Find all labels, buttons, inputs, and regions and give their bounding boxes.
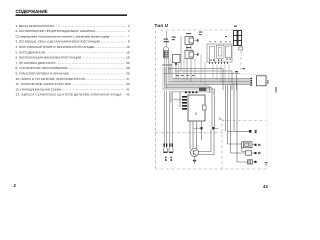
switch box row3 <box>246 151 252 155</box>
inverter top pins <box>185 88 206 94</box>
svg-text:41: 41 <box>126 87 130 91</box>
dashed control panel box right <box>266 74 268 169</box>
svg-text:13. АДРЕСА СЕРВИСНЫХ ЦЕНТРОВ Д: 13. АДРЕСА СЕРВИСНЫХ ЦЕНТРОВ ДИЛЕРОВ КОМ… <box>16 93 122 97</box>
wire label above coil <box>164 37 176 43</box>
wire end connector housings <box>163 148 173 152</box>
ground below transistor <box>193 160 197 164</box>
svg-text:16: 16 <box>126 50 130 54</box>
bundle left drops down <box>164 91 172 149</box>
svg-text:37: 37 <box>126 77 130 81</box>
small box below connector <box>239 47 243 50</box>
svg-text:10: 10 <box>126 45 130 49</box>
wires below inverter <box>190 121 197 150</box>
svg-text:11. ТЕХНИЧЕСКИЕ ХАРАКТЕРИСТИКИ: 11. ТЕХНИЧЕСКИЕ ХАРАКТЕРИСТИКИ <box>16 82 71 86</box>
wire bundle horizontal <box>163 69 240 130</box>
svg-text:7. ОСТАНОВКА ДВИГАТЕЛЯ: 7. ОСТАНОВКА ДВИГАТЕЛЯ <box>16 61 56 65</box>
spark plug circle <box>191 149 199 157</box>
control unit outer box <box>207 44 232 62</box>
svg-text:5. ПУСК ДВИГАТЕЛЯ: 5. ПУСК ДВИГАТЕЛЯ <box>16 50 46 54</box>
control unit inner pin marks <box>211 59 231 61</box>
dashed inner separator vertical <box>221 119 223 170</box>
wire right of coil <box>180 37 182 71</box>
svg-text:39: 39 <box>126 82 130 86</box>
left page: table of contents <box>16 9 128 16</box>
engine stop switch box <box>173 55 181 63</box>
svg-text:28: 28 <box>126 66 130 70</box>
connector pins to control panel <box>251 78 253 86</box>
control unit top pin labels <box>210 41 232 42</box>
svg-text:СОДЕРЖАНИЕ: СОДЕРЖАНИЕ <box>16 9 48 14</box>
dashed enclosure bottom <box>156 168 268 170</box>
inverter unit big box <box>188 95 205 121</box>
svg-text:4: 4 <box>128 29 130 33</box>
control panel row 1 wire <box>228 130 250 132</box>
svg-text:8: 8 <box>128 40 130 44</box>
svg-text:СЕ-маркировка и расположение н: СЕ-маркировка и расположение наклеек с у… <box>16 34 110 38</box>
row1 terminal <box>249 130 257 133</box>
wires below relay 2 <box>187 59 191 83</box>
wire under switch box <box>175 63 177 80</box>
loop wires right of spark plug <box>198 121 214 155</box>
control unit bottom pins <box>209 62 228 64</box>
wires between relays <box>187 45 191 51</box>
svg-text:5: 5 <box>219 117 221 121</box>
wires below coil block <box>165 58 169 88</box>
wire labels above bundle <box>176 75 194 76</box>
wires bundle to panel connector <box>240 79 251 85</box>
junction row wires <box>194 128 219 130</box>
wire from top into coil <box>166 31 168 46</box>
svg-text:2: 2 <box>14 183 17 188</box>
svg-text:8. ТЕХНИЧЕСКОЕ ОБСЛУЖИВАНИЕ: 8. ТЕХНИЧЕСКОЕ ОБСЛУЖИВАНИЕ <box>16 66 68 70</box>
svg-text:2. РАСПОЛОЖЕНИЕ ПРЕДУПРЕЖДАЮЩИ: 2. РАСПОЛОЖЕНИЕ ПРЕДУПРЕЖДАЮЩИХ ТАБЛИЧЕК <box>16 29 96 33</box>
dashed control panel box top <box>241 73 267 75</box>
svg-text:18: 18 <box>126 56 130 60</box>
junction blocks <box>201 127 215 129</box>
inverter left pins <box>182 96 187 110</box>
wire label right of bundle <box>235 71 238 72</box>
svg-text:10. ПОИСК И УСТРАНЕНИЕ НЕИСПРА: 10. ПОИСК И УСТРАНЕНИЕ НЕИСПРАВНОСТЕЙ <box>16 77 85 81</box>
svg-text:3. ОСНОВНЫЕ УЗЛЫ И ДЕТАЛИ МИНИ: 3. ОСНОВНЫЕ УЗЛЫ И ДЕТАЛИ МИНИЭЛЕКТРОСТА… <box>16 40 100 44</box>
svg-text:6. ЭКСПЛУАТАЦИЯ МИНИЭЛЕКТРОСТА: 6. ЭКСПЛУАТАЦИЯ МИНИЭЛЕКТРОСТАНЦИИ <box>16 56 81 60</box>
panel connector box <box>257 76 267 86</box>
control unit inner cells <box>210 45 232 62</box>
ignition coil connector block <box>163 47 168 58</box>
svg-text:7: 7 <box>128 34 130 38</box>
dashed enclosure main box top <box>161 29 241 31</box>
ground marks right border <box>265 162 268 166</box>
pilot lamp box row2 <box>242 142 253 148</box>
labels near relays <box>186 32 203 49</box>
dashed inner separator left horizontal <box>156 132 223 134</box>
svg-text:12. ПРИНЦИПИАЛЬНАЯ СХЕМА: 12. ПРИНЦИПИАЛЬНАЯ СХЕМА <box>16 87 62 91</box>
relay 2 <box>185 51 198 59</box>
svg-text:26: 26 <box>126 61 130 65</box>
pin tick under switch box <box>175 63 177 65</box>
dashed inner separator right horizontal <box>222 120 266 122</box>
junction marks above risers <box>163 64 172 66</box>
svg-text:43: 43 <box>263 184 268 189</box>
transistor bar and leads <box>193 150 196 155</box>
svg-text:3: 3 <box>128 24 130 28</box>
panel label marks <box>267 80 276 93</box>
relay 1 <box>185 37 198 45</box>
svg-text:4. КОНТРОЛЬНЫЙ ОСМОТР МИНИЭЛЕК: 4. КОНТРОЛЬНЫЙ ОСМОТР МИНИЭЛЕКТРОСТАНЦИИ <box>16 45 95 49</box>
inverter right small box <box>203 105 207 110</box>
label near top right border <box>225 26 245 70</box>
toc rule <box>16 14 128 16</box>
grey housing outline above inverter <box>171 92 215 103</box>
dark wire sleeves <box>164 143 173 146</box>
svg-text:Тип U: Тип U <box>155 23 169 28</box>
wire colour labels lower left <box>165 157 172 161</box>
socket row4 <box>248 160 253 164</box>
dashed enclosure main box right upper <box>240 30 242 74</box>
svg-text:1. МЕРЫ БЕЗОПАСНОСТИ: 1. МЕРЫ БЕЗОПАСНОСТИ <box>16 24 54 28</box>
svg-text:45: 45 <box>126 93 130 97</box>
bundle left nested risers <box>163 67 172 89</box>
bundle right vertical drops <box>223 69 237 163</box>
vertical taps from components to bundle <box>170 55 229 85</box>
dashed enclosure main box left <box>155 31 157 169</box>
main connector block top right <box>234 31 242 46</box>
svg-text:36: 36 <box>126 72 130 76</box>
svg-text:9. ТРАНСПОРТИРОВКА И ХРАНЕНИЕ: 9. ТРАНСПОРТИРОВКА И ХРАНЕНИЕ <box>16 72 70 76</box>
left lower wires <box>179 92 181 107</box>
svg-text:3: 3 <box>195 112 197 116</box>
